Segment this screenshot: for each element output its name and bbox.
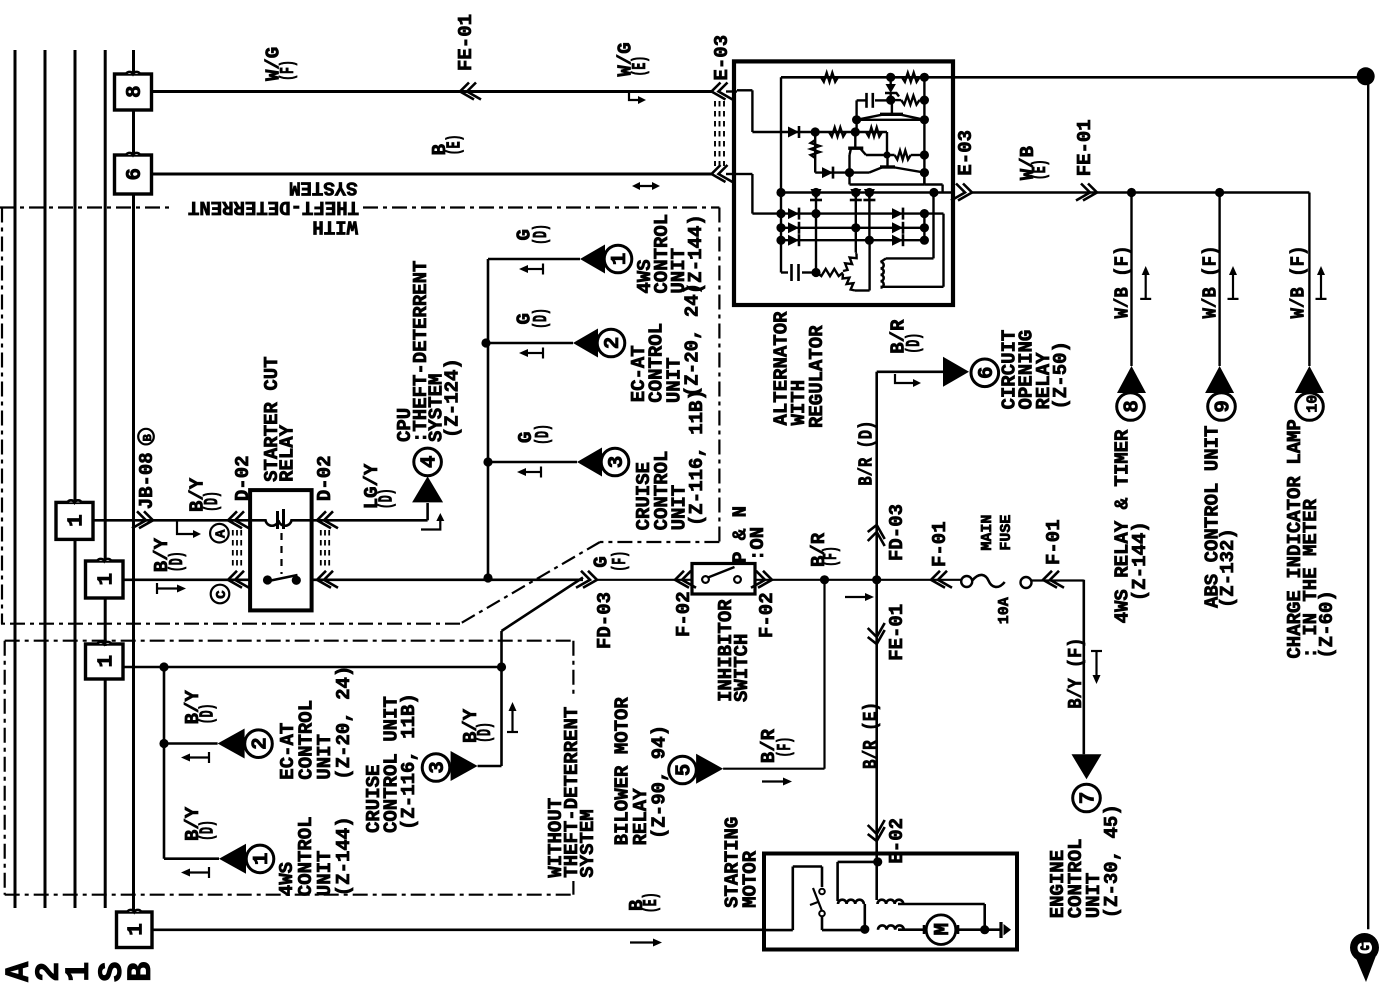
svg-text:FE-01: FE-01 xyxy=(1074,119,1096,176)
svg-text:F-01: F-01 xyxy=(929,521,951,567)
svg-text:B: B xyxy=(141,434,155,441)
svg-text:(F): (F) xyxy=(609,551,631,572)
svg-text:8: 8 xyxy=(1122,400,1145,413)
svg-text:(D): (D) xyxy=(903,333,925,354)
svg-text:(Z-90, 94): (Z-90, 94) xyxy=(649,725,671,839)
svg-text:SWITCH: SWITCH xyxy=(731,634,753,702)
svg-text:E-03: E-03 xyxy=(955,130,977,176)
svg-text:6: 6 xyxy=(124,168,147,181)
svg-text:F-02: F-02 xyxy=(673,591,695,637)
svg-text:F-01: F-01 xyxy=(1043,519,1065,565)
svg-text:1: 1 xyxy=(95,655,118,668)
svg-text:SYSTEM: SYSTEM xyxy=(289,177,357,199)
svg-text:8: 8 xyxy=(124,85,147,98)
svg-text:(D): (D) xyxy=(532,424,554,445)
svg-text:(Z-20, 24): (Z-20, 24) xyxy=(682,283,704,397)
svg-text:F-02: F-02 xyxy=(756,592,778,638)
svg-text:1: 1 xyxy=(251,852,274,865)
svg-text:FE-01: FE-01 xyxy=(886,604,908,661)
svg-text:WITH: WITH xyxy=(312,216,358,238)
svg-text:10A: 10A xyxy=(996,597,1013,624)
svg-text:(D): (D) xyxy=(166,551,188,572)
svg-text:SYSTEM: SYSTEM xyxy=(577,809,599,877)
svg-text:2: 2 xyxy=(250,737,273,750)
svg-text:1: 1 xyxy=(609,253,632,266)
svg-text:REGULATOR: REGULATOR xyxy=(806,325,828,428)
svg-text:W/B (F): W/B (F) xyxy=(1111,246,1133,319)
svg-text:(D): (D) xyxy=(530,224,552,245)
svg-text:(F): (F) xyxy=(774,737,796,758)
svg-text:(E): (E) xyxy=(640,892,662,913)
svg-text:10: 10 xyxy=(1305,395,1322,413)
svg-text:(Z-132): (Z-132) xyxy=(1217,528,1239,608)
svg-text:(E): (E) xyxy=(444,134,466,155)
svg-text:(Z-20, 24): (Z-20, 24) xyxy=(333,666,355,780)
svg-text:(Z-144): (Z-144) xyxy=(685,214,707,294)
svg-text:(Z-60): (Z-60) xyxy=(1316,590,1338,658)
svg-text:9: 9 xyxy=(1213,400,1236,413)
svg-text:(Z-144): (Z-144) xyxy=(1129,521,1151,601)
svg-text:B/R (D): B/R (D) xyxy=(855,421,877,486)
svg-text:(Z-144): (Z-144) xyxy=(333,816,355,896)
svg-text:5: 5 xyxy=(674,764,697,777)
svg-text:FUSE: FUSE xyxy=(998,515,1015,551)
svg-text:1: 1 xyxy=(125,923,148,936)
svg-text:(Z-30, 45): (Z-30, 45) xyxy=(1101,804,1123,918)
svg-text:(D): (D) xyxy=(474,722,496,743)
svg-text:W/B (F): W/B (F) xyxy=(1199,246,1221,319)
svg-text:1: 1 xyxy=(66,514,89,527)
svg-text:(Z-50): (Z-50) xyxy=(1050,341,1072,409)
svg-text:(E): (E) xyxy=(629,56,651,77)
svg-text:B/R (E): B/R (E) xyxy=(860,702,882,769)
svg-text:E-02: E-02 xyxy=(886,818,908,864)
svg-text:MAIN: MAIN xyxy=(979,515,996,551)
svg-text:FD-03: FD-03 xyxy=(886,504,908,561)
svg-text:(E): (E) xyxy=(1029,159,1051,180)
svg-text:2: 2 xyxy=(602,337,625,350)
svg-text:RELAY: RELAY xyxy=(277,424,299,482)
svg-text:(D): (D) xyxy=(376,488,398,509)
svg-text:C: C xyxy=(214,590,230,599)
svg-text:4: 4 xyxy=(419,455,442,468)
svg-text:(D): (D) xyxy=(201,491,223,512)
svg-text:3: 3 xyxy=(606,456,629,469)
svg-text:FE-01: FE-01 xyxy=(455,14,477,71)
svg-text:A: A xyxy=(213,529,229,538)
svg-text::ON: :ON xyxy=(747,527,769,561)
svg-text:FD-03: FD-03 xyxy=(594,592,616,649)
svg-text:B: B xyxy=(123,962,161,982)
svg-text:G: G xyxy=(1354,941,1379,954)
svg-text:(Z-124): (Z-124) xyxy=(441,358,463,438)
svg-text:B/Y (F): B/Y (F) xyxy=(1065,638,1087,709)
svg-text:(D): (D) xyxy=(197,820,219,841)
svg-text:JB-08: JB-08 xyxy=(136,452,158,509)
svg-text:(D): (D) xyxy=(530,308,552,329)
svg-text:(D): (D) xyxy=(197,703,219,724)
svg-text:(F): (F) xyxy=(820,546,842,567)
svg-text:MOTOR: MOTOR xyxy=(740,850,762,908)
svg-text:6: 6 xyxy=(976,366,999,379)
svg-text:7: 7 xyxy=(1078,792,1101,805)
svg-text:1: 1 xyxy=(95,573,118,586)
svg-text:3: 3 xyxy=(427,761,450,774)
svg-text:W/B (F): W/B (F) xyxy=(1287,246,1309,319)
svg-text:D-02: D-02 xyxy=(314,455,336,501)
svg-text:E-03: E-03 xyxy=(711,35,733,81)
svg-text:THEFT-DETERRENT: THEFT-DETERRENT xyxy=(188,196,359,218)
svg-text:(Z-116, 11B): (Z-116, 11B) xyxy=(398,693,420,830)
svg-text:(F): (F) xyxy=(277,60,299,81)
svg-text:(Z-116, 11B): (Z-116, 11B) xyxy=(686,389,708,526)
svg-text:M: M xyxy=(932,923,955,936)
